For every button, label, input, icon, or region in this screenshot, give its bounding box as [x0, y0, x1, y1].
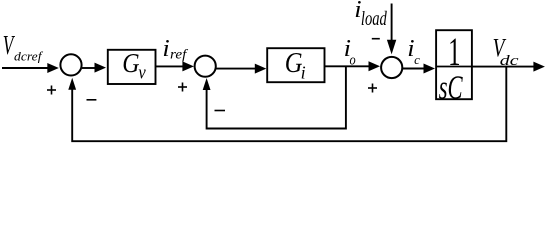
svg-text:1: 1 — [448, 30, 460, 74]
svg-text:G: G — [122, 47, 140, 78]
svg-text:sC: sC — [439, 70, 464, 106]
svg-text:v: v — [138, 61, 145, 82]
svg-text:load: load — [361, 7, 387, 30]
svg-text:i: i — [162, 36, 169, 62]
svg-text:i: i — [301, 63, 306, 83]
svg-text:ref: ref — [170, 47, 188, 62]
svg-text:dc: dc — [500, 51, 519, 68]
svg-text:dcref: dcref — [14, 49, 44, 64]
svg-text:c: c — [414, 52, 420, 67]
svg-text:o: o — [350, 52, 356, 68]
